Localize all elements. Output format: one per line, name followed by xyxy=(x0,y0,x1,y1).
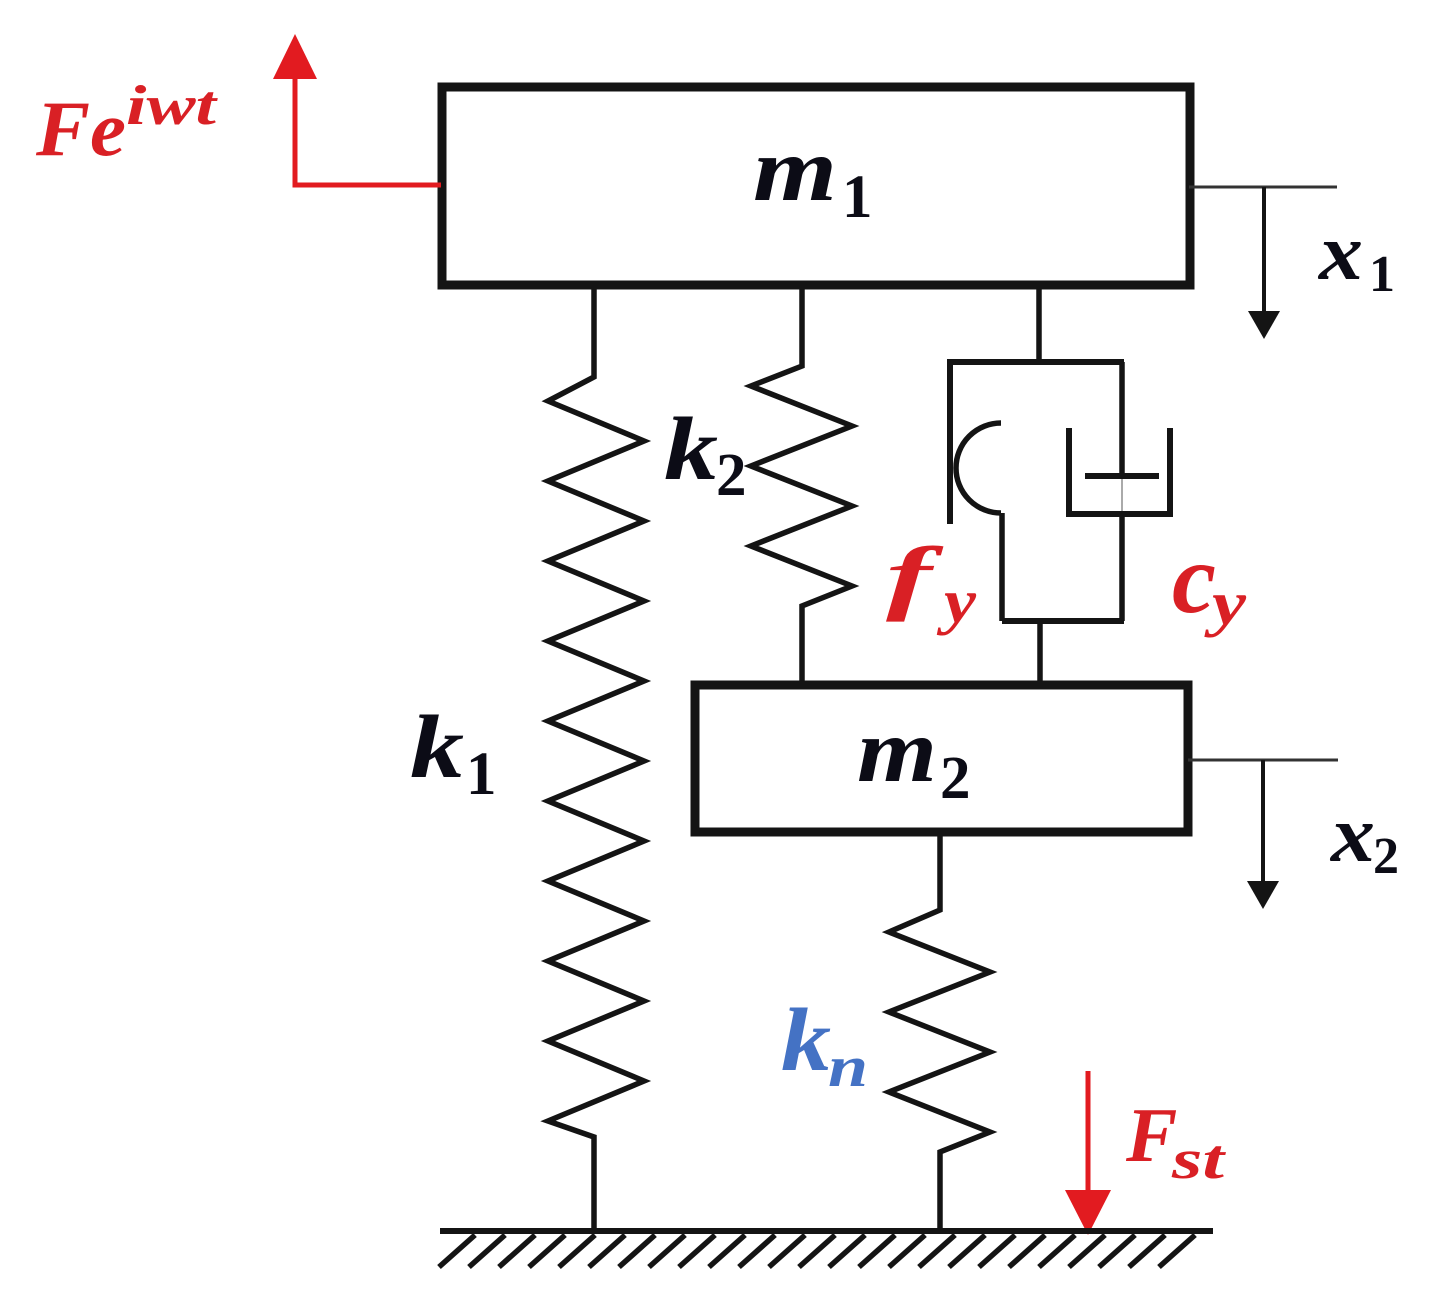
svg-text:1: 1 xyxy=(1369,246,1395,303)
svg-text:2: 2 xyxy=(940,745,971,812)
svg-text:m: m xyxy=(857,700,937,801)
svg-text:x: x xyxy=(1330,791,1375,879)
svg-text:st: st xyxy=(1171,1129,1226,1191)
svg-text:iwt: iwt xyxy=(126,75,218,137)
svg-text:Fe: Fe xyxy=(35,85,126,172)
svg-text:k: k xyxy=(664,400,718,499)
svg-text:m: m xyxy=(753,119,837,220)
svg-text:k: k xyxy=(410,698,464,797)
svg-text:1: 1 xyxy=(466,741,497,808)
svg-text:c: c xyxy=(1172,523,1216,634)
svg-text:1: 1 xyxy=(842,164,873,231)
svg-text:n: n xyxy=(828,1034,868,1099)
svg-text:k: k xyxy=(781,991,831,1090)
svg-text:x: x xyxy=(1318,209,1363,297)
svg-text:2: 2 xyxy=(1373,828,1399,885)
svg-text:F: F xyxy=(1125,1092,1177,1178)
svg-text:2: 2 xyxy=(716,442,747,509)
